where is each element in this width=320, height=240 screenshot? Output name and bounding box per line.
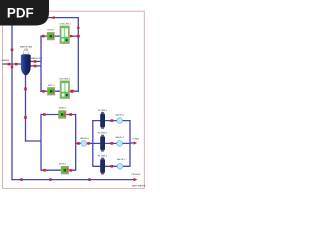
svg-text:VALVE-3: VALVE-3 [117,158,126,161]
arrow vessel bottom 2 [24,116,27,119]
filter FILTER-1 [100,112,105,129]
vessel V-101 water tank [21,51,31,76]
arrow frow1 [111,119,114,122]
arrow vessel bottom 1 [24,88,27,91]
wire to-air outlet [130,142,134,144]
node row2 dot left of MTD-2 [42,90,45,93]
node row2feed junction [77,142,80,145]
wire outlet b [30,65,41,67]
wire row2 [40,90,79,92]
svg-text:PDF: PDF [7,6,34,21]
wire filter row3 [93,165,130,167]
valve VALVE-1 [117,118,123,124]
wire vertical x75.7 [75,114,77,171]
wire inlet [3,63,22,65]
arrow pump3 out [69,113,72,116]
wire filter row2 [93,142,130,144]
svg-text:MTR-3: MTR-3 [59,107,66,109]
wire row2 feed [76,142,93,144]
svg-text:FILTER-3: FILTER-3 [98,156,108,158]
wire left manifold [92,120,94,167]
node bypass-inlet junction [11,66,14,69]
svg-text:WATEROUT: WATEROUT [31,57,43,60]
wire pump4 line [41,169,76,171]
svg-text:VALVE-2: VALVE-2 [115,136,124,139]
wire row1 [40,35,78,37]
svg-text:WATER: WATER [2,59,10,62]
arrow frow3 [111,165,114,168]
PDF badge [0,0,49,26]
node pump3 dot [43,113,46,116]
arrow downcomer up [77,25,80,29]
drawing border frame [3,11,145,188]
arrow bottom 2 [49,178,52,181]
node pump4 dot [43,169,46,172]
wire outlet a [30,60,41,62]
valve VALVE-3 [117,163,123,169]
arrow inlet 2 [15,63,18,66]
wire top return line [12,17,78,19]
arrow bottom 1 [20,178,23,181]
svg-text:TO AIR: TO AIR [132,137,140,140]
arrow frow2 [111,142,114,145]
arrow bottom 3 [88,178,91,181]
svg-text:VALVE-1: VALVE-1 [115,113,124,116]
wire right manifold [129,120,131,167]
node row2feed before manifold [87,142,90,145]
svg-text:MTD-1: MTD-1 [48,29,55,31]
arrow pump4 in [70,169,73,172]
wire vertical B [40,114,42,171]
wire bottom long line [12,179,134,181]
filter FILTER-2 [100,135,105,152]
pump MTD-1 [47,32,54,40]
valve VALVE-4 [81,141,87,147]
pump MTD-2 [48,88,55,96]
pump MTR-4 [61,166,68,174]
wire horiz y141 [25,140,41,142]
node row1 dot left of MTD-1 [42,35,45,38]
arrow bottom head [134,178,138,182]
chiller CHILLER-2 [60,81,69,99]
svg-text:MTR-4: MTR-4 [59,164,66,166]
wire filter row1 [93,120,130,122]
svg-text:RAW WATER: RAW WATER [132,184,146,187]
filter FILTER-3 [100,158,105,175]
svg-text:MTD-2: MTD-2 [48,85,55,87]
arrow outlet b [34,65,37,68]
svg-text:PROSES: PROSES [131,174,141,176]
arrow row2 after chiller [71,90,74,93]
arrow inlet 1 [8,63,11,66]
pump MTR-3 [59,111,66,119]
arrow top line left [51,16,55,19]
svg-text:FILTER-2: FILTER-2 [98,133,108,135]
chiller CHILLER-1 [60,26,69,44]
wire pump3 line [41,114,76,116]
svg-text:CHILLER-2: CHILLER-2 [59,79,71,81]
wire bypass vertical [11,17,13,180]
arrow to-air head [134,141,137,145]
svg-text:FILTER-1: FILTER-1 [98,110,108,112]
arrow outlet a [34,60,37,63]
valve VALVE-2 [117,141,123,147]
svg-text:CHILLER-1: CHILLER-1 [60,24,72,26]
wire vessel bottom [25,73,27,142]
arrow row1 after chiller [70,34,74,37]
svg-text:VALVE-4: VALVE-4 [80,137,89,140]
arrow bypass down [11,49,14,52]
wire downcomer [77,17,79,92]
wire splitter vertical [40,36,42,92]
node row1 junction at downcomer [77,35,80,38]
